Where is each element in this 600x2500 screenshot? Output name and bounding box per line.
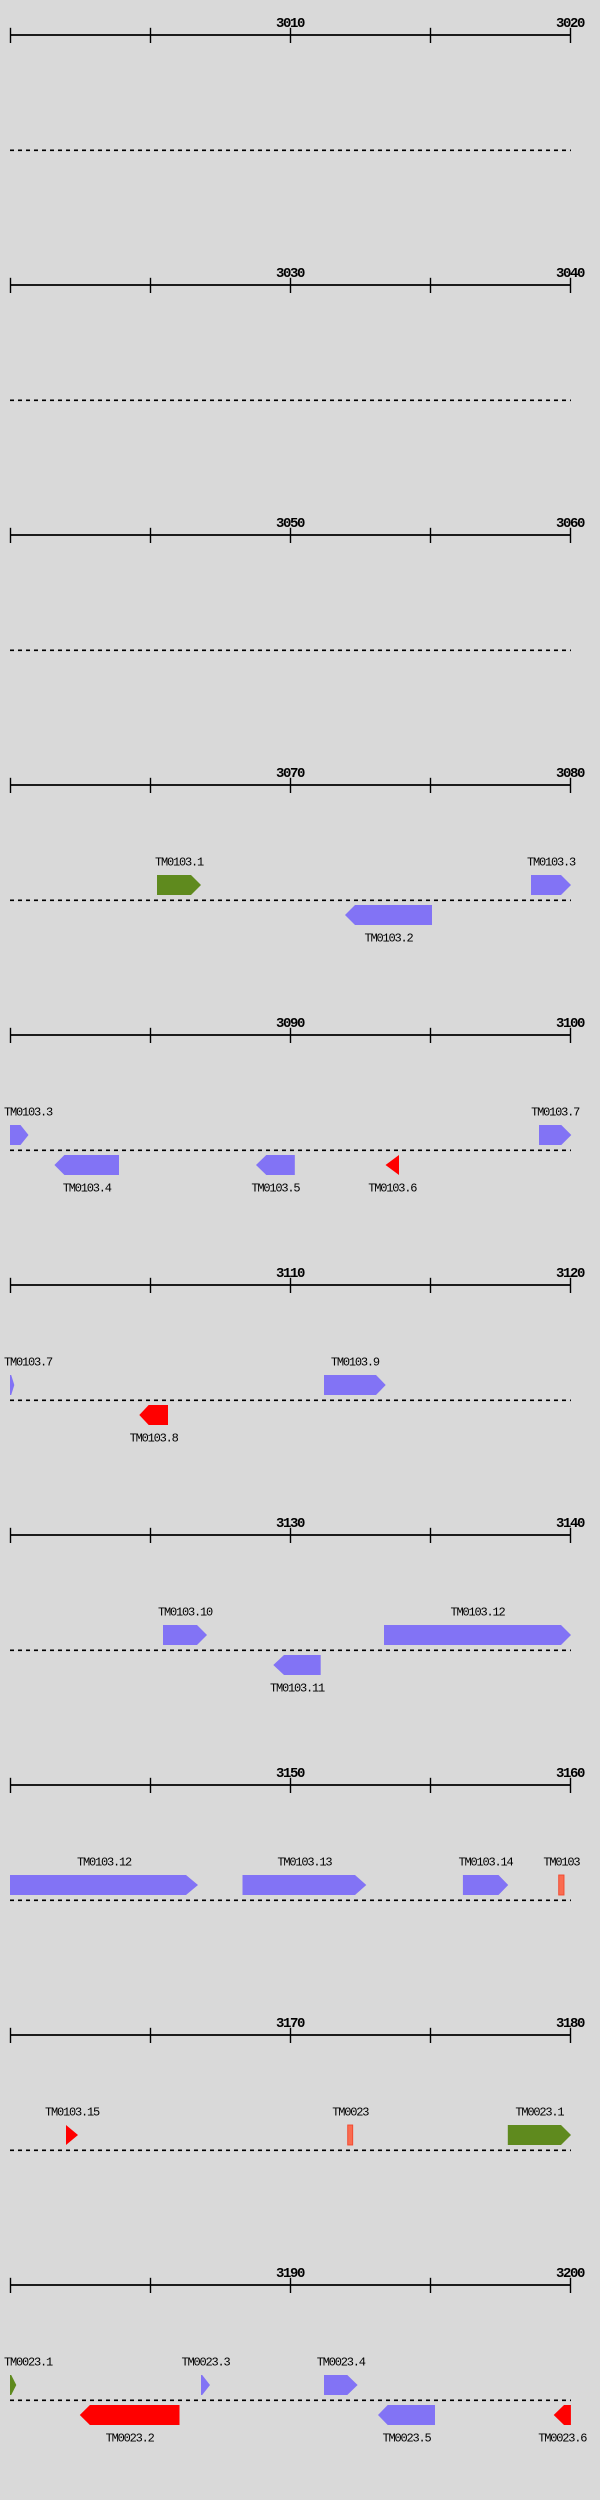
gene TM0103.1 panel 4: [157, 875, 201, 895]
ruler panel 6: [10, 1284, 571, 1286]
gene TM0103.13 panel 8: [243, 1875, 367, 1895]
ruler panel 10: [10, 2284, 571, 2286]
ruler tick 150 panel 3: [150, 528, 152, 543]
svg-text:TM0103.15: TM0103.15: [45, 2106, 100, 2120]
svg-text:3090: 3090: [276, 1016, 305, 1032]
dashed center line panel 4: [10, 899, 571, 901]
svg-text:TM0103.10: TM0103.10: [158, 1606, 213, 1620]
ruler tick 290 panel 1: [290, 28, 292, 43]
ruler tick 570 panel 1: [570, 28, 572, 43]
gene TM0103.15 panel 9: [66, 2125, 78, 2145]
ruler panel 5: [10, 1034, 571, 1036]
svg-text:3080: 3080: [556, 766, 585, 782]
gene TM0103.6 panel 5: [386, 1155, 400, 1175]
svg-text:TM0023.5: TM0023.5: [382, 2432, 431, 2446]
ruler tick 10 panel 2: [10, 278, 12, 293]
svg-text:TM0103.2: TM0103.2: [364, 932, 413, 946]
ruler tick 430 panel 8: [430, 1778, 432, 1793]
svg-text:3010: 3010: [276, 16, 305, 32]
gene TM0103.7 panel 6: [10, 1375, 14, 1395]
gene TM0023.6 panel 10: [554, 2405, 571, 2425]
svg-text:3100: 3100: [556, 1016, 585, 1032]
ruler tick 430 panel 9: [430, 2028, 432, 2043]
gene TM0103.14 panel 8: [463, 1875, 508, 1895]
ruler panel 7: [10, 1534, 571, 1536]
gene TM0103.4 panel 5: [54, 1155, 119, 1175]
ruler tick 290 panel 10: [290, 2278, 292, 2293]
ruler tick 570 panel 10: [570, 2278, 572, 2293]
ruler tick 10 panel 3: [10, 528, 12, 543]
svg-text:TM0023: TM0023: [332, 2106, 369, 2120]
ruler tick 570 panel 7: [570, 1528, 572, 1543]
ruler tick 430 panel 1: [430, 28, 432, 43]
ruler tick 150 panel 1: [150, 28, 152, 43]
svg-text:TM0103.3: TM0103.3: [527, 856, 576, 870]
ruler tick 430 panel 10: [430, 2278, 432, 2293]
ruler panel 3: [10, 534, 571, 536]
gene TM0103.10 panel 7: [163, 1625, 207, 1645]
dashed center line panel 2: [10, 399, 571, 401]
svg-text:TM0103.13: TM0103.13: [277, 1856, 332, 1870]
svg-text:3030: 3030: [276, 266, 305, 282]
gene TM0023.1 panel 10: [10, 2375, 16, 2395]
svg-text:TM0103.14: TM0103.14: [459, 1856, 514, 1870]
ruler tick 290 panel 7: [290, 1528, 292, 1543]
ruler panel 4: [10, 784, 571, 786]
dashed center line panel 9: [10, 2149, 571, 2151]
dashed center line panel 7: [10, 1649, 571, 1651]
svg-text:3020: 3020: [556, 16, 585, 32]
ruler panel 1: [10, 34, 571, 36]
svg-text:TM0103: TM0103: [543, 1856, 580, 1870]
gene TM0023.5 panel 10: [378, 2405, 435, 2425]
gene TM0023.2 panel 10: [80, 2405, 180, 2425]
ruler tick 150 panel 2: [150, 278, 152, 293]
svg-text:TM0023.2: TM0023.2: [106, 2432, 155, 2446]
svg-text:3200: 3200: [556, 2266, 585, 2282]
svg-text:TM0103.1: TM0103.1: [155, 856, 204, 870]
ruler tick 570 panel 2: [570, 278, 572, 293]
gene TM0103.7 panel 5: [539, 1125, 571, 1145]
ruler tick 430 panel 4: [430, 778, 432, 793]
dashed center line panel 6: [10, 1399, 571, 1401]
ruler tick 430 panel 7: [430, 1528, 432, 1543]
svg-text:TM0023.6: TM0023.6: [538, 2432, 587, 2446]
svg-text:3150: 3150: [276, 1766, 305, 1782]
gene TM0023.1 panel 9: [508, 2125, 571, 2145]
gene TM0103.3 panel 5: [10, 1125, 29, 1145]
ruler tick 10 panel 6: [10, 1278, 12, 1293]
ruler tick 570 panel 6: [570, 1278, 572, 1293]
ruler tick 10 panel 7: [10, 1528, 12, 1543]
ruler tick 570 panel 9: [570, 2028, 572, 2043]
svg-text:TM0103.7: TM0103.7: [4, 1356, 53, 1370]
dashed center line panel 3: [10, 649, 571, 651]
svg-text:TM0103.5: TM0103.5: [251, 1182, 300, 1196]
ruler tick 150 panel 5: [150, 1028, 152, 1043]
dashed center line panel 10: [10, 2399, 571, 2401]
gene TM0103.8 panel 6: [139, 1405, 168, 1425]
svg-text:3170: 3170: [276, 2016, 305, 2032]
ruler tick 570 panel 3: [570, 528, 572, 543]
svg-text:TM0023.4: TM0023.4: [317, 2356, 366, 2370]
gene TM0023.3 panel 10: [201, 2375, 210, 2395]
ruler tick 290 panel 3: [290, 528, 292, 543]
svg-text:TM0103.3: TM0103.3: [4, 1106, 53, 1120]
svg-text:TM0023.1: TM0023.1: [4, 2356, 53, 2370]
svg-text:TM0103.7: TM0103.7: [531, 1106, 580, 1120]
ruler tick 290 panel 9: [290, 2028, 292, 2043]
ruler tick 570 panel 5: [570, 1028, 572, 1043]
ruler tick 150 panel 7: [150, 1528, 152, 1543]
svg-text:TM0103.12: TM0103.12: [77, 1856, 132, 1870]
dashed center line panel 1: [10, 149, 571, 151]
ruler tick 10 panel 8: [10, 1778, 12, 1793]
ruler tick 430 panel 6: [430, 1278, 432, 1293]
svg-text:3180: 3180: [556, 2016, 585, 2032]
ruler tick 290 panel 4: [290, 778, 292, 793]
svg-text:TM0103.9: TM0103.9: [331, 1356, 380, 1370]
ruler tick 150 panel 6: [150, 1278, 152, 1293]
gene TM0103.5 panel 5: [256, 1155, 295, 1175]
ruler panel 2: [10, 284, 571, 286]
svg-text:TM0103.11: TM0103.11: [270, 1682, 325, 1696]
dashed center line panel 8: [10, 1899, 571, 1901]
gene TM0103.11 panel 7: [273, 1655, 320, 1675]
svg-text:3110: 3110: [276, 1266, 305, 1282]
ruler tick 290 panel 5: [290, 1028, 292, 1043]
svg-text:3050: 3050: [276, 516, 305, 532]
ruler tick 150 panel 4: [150, 778, 152, 793]
ruler tick 10 panel 10: [10, 2278, 12, 2293]
svg-text:3060: 3060: [556, 516, 585, 532]
svg-text:TM0103.8: TM0103.8: [130, 1432, 179, 1446]
gene TM0103.3 panel 4: [531, 875, 571, 895]
svg-text:3190: 3190: [276, 2266, 305, 2282]
ruler tick 150 panel 10: [150, 2278, 152, 2293]
ruler tick 570 panel 8: [570, 1778, 572, 1793]
ruler tick 430 panel 5: [430, 1028, 432, 1043]
ruler tick 150 panel 8: [150, 1778, 152, 1793]
svg-text:3120: 3120: [556, 1266, 585, 1282]
gene TM0103.9 panel 6: [324, 1375, 386, 1395]
svg-text:3140: 3140: [556, 1516, 585, 1532]
ruler tick 290 panel 2: [290, 278, 292, 293]
svg-text:3070: 3070: [276, 766, 305, 782]
ruler tick 10 panel 4: [10, 778, 12, 793]
ruler tick 430 panel 2: [430, 278, 432, 293]
svg-text:3040: 3040: [556, 266, 585, 282]
dashed center line panel 5: [10, 1149, 571, 1151]
ruler panel 9: [10, 2034, 571, 2036]
svg-text:3130: 3130: [276, 1516, 305, 1532]
svg-text:TM0103.6: TM0103.6: [368, 1182, 417, 1196]
ruler tick 290 panel 8: [290, 1778, 292, 1793]
gene TM0103.12 panel 7: [384, 1625, 571, 1645]
ruler tick 10 panel 5: [10, 1028, 12, 1043]
ruler tick 10 panel 9: [10, 2028, 12, 2043]
gene TM0103.12 panel 8: [10, 1875, 198, 1895]
ruler tick 430 panel 3: [430, 528, 432, 543]
ruler tick 150 panel 9: [150, 2028, 152, 2043]
gene TM0023.4 panel 10: [324, 2375, 358, 2395]
ruler panel 8: [10, 1784, 571, 1786]
gene TM0023 panel 9: [348, 2125, 353, 2145]
svg-text:TM0023.1: TM0023.1: [515, 2106, 564, 2120]
svg-text:TM0103.4: TM0103.4: [63, 1182, 112, 1196]
gene TM0103.2 panel 4: [345, 905, 432, 925]
svg-text:3160: 3160: [556, 1766, 585, 1782]
svg-text:TM0023.3: TM0023.3: [181, 2356, 230, 2370]
ruler tick 10 panel 1: [10, 28, 12, 43]
ruler tick 290 panel 6: [290, 1278, 292, 1293]
svg-text:TM0103.12: TM0103.12: [450, 1606, 505, 1620]
gene TM0103 panel 8: [559, 1875, 564, 1895]
ruler tick 570 panel 4: [570, 778, 572, 793]
